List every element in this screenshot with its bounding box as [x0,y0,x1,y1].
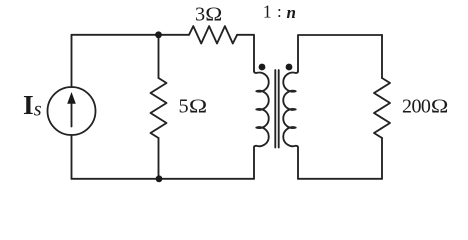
transformer primary winding [254,71,269,179]
current source Is circle [48,87,96,135]
resistor R 200 ohm (vertical zigzag) [374,78,390,138]
node dot: top junction [155,31,162,38]
svg-text:I: I [23,89,34,120]
wire: top wire left segment (source to 3-ohm resistor) [72,34,190,36]
wire: secondary right vertical top [381,35,383,78]
resistor R 3 ohm (horizontal zigzag) [189,26,237,43]
transformer core line left [274,70,276,148]
current source arrowhead [67,92,76,104]
current source arrow [71,101,73,127]
wire: bottom wire of primary loop [72,178,255,180]
svg-text:Ω: Ω [431,96,449,118]
wire: secondary top lead [298,35,382,71]
resistor R 5 ohm (vertical zigzag) [151,78,167,138]
transformer secondary winding [283,71,298,179]
svg-text:1: 1 [263,1,272,21]
wire: top wire right segment to transformer primary corner [237,35,254,71]
wire: left vertical below current source [71,135,73,179]
svg-text:s: s [34,99,42,121]
svg-text:Ω: Ω [205,4,222,26]
wire: secondary bottom wire [298,178,382,180]
node dot: bottom junction [156,175,163,182]
svg-text::: : [277,2,282,21]
transformer dot secondary [286,64,293,71]
svg-text:200: 200 [402,96,431,118]
svg-text:5: 5 [179,96,189,118]
svg-text:n: n [287,3,296,22]
svg-text:Ω: Ω [189,96,207,118]
wire: secondary right vertical bottom [381,138,383,179]
transformer dot primary [259,64,266,71]
wire: left vertical above current source [71,35,73,87]
wire: 5-ohm branch top lead [158,35,160,78]
svg-text:3: 3 [195,4,205,26]
wire: 5-ohm branch bottom lead [158,138,160,179]
transformer core line right [278,70,280,148]
